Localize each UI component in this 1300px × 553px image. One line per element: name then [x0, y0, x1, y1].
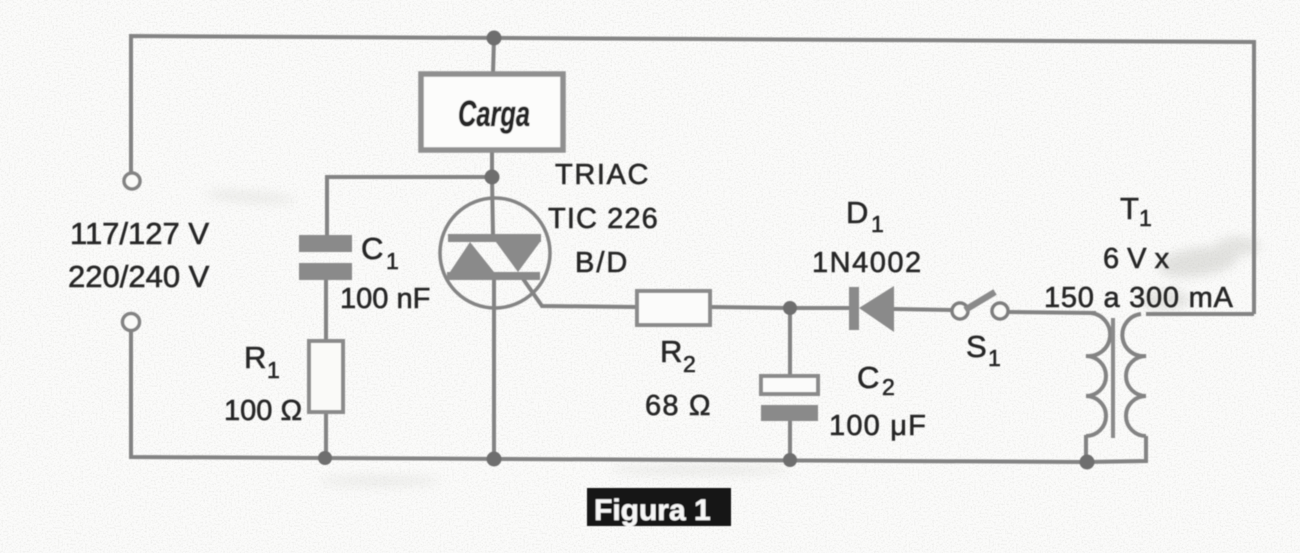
svg-text:Figura 1: Figura 1 — [594, 494, 711, 527]
resistor R2 — [637, 291, 710, 325]
wire node A to C1 branch — [327, 177, 492, 235]
svg-text:1: 1 — [1139, 205, 1152, 231]
svg-text:100 μF: 100 μF — [829, 410, 927, 442]
svg-text:1: 1 — [871, 211, 884, 237]
node top rail junction — [487, 31, 502, 46]
svg-text:2: 2 — [882, 374, 895, 400]
terminal top-left — [124, 173, 140, 189]
node triac bottom junction — [487, 452, 502, 467]
svg-text:S: S — [966, 329, 987, 364]
wire Carga to node A — [490, 150, 494, 177]
transformer T1 core — [1111, 318, 1115, 438]
diode D1 — [849, 286, 894, 332]
svg-text:Carga: Carga — [458, 93, 530, 134]
svg-text:100 Ω: 100 Ω — [224, 395, 302, 427]
label C2 — [857, 360, 895, 400]
wire top rail with side drops — [131, 36, 1254, 314]
wire triac MT1 to bottom rail — [492, 278, 496, 459]
node transformer bottom junction — [1080, 455, 1095, 470]
terminal bottom-left — [123, 314, 140, 331]
label D1 — [846, 195, 884, 237]
resistor R1 — [309, 341, 343, 412]
wire S1 to transformer primary — [1008, 312, 1096, 313]
node C2 bottom junction — [783, 453, 797, 467]
svg-text:1: 1 — [267, 357, 280, 383]
svg-text:68 Ω: 68 Ω — [645, 390, 712, 422]
svg-text:B/D: B/D — [575, 247, 629, 279]
label T1 — [1120, 191, 1152, 231]
label S1 — [966, 329, 1001, 371]
figure caption Figura 1 — [587, 488, 731, 527]
wire node B down to C2 — [788, 308, 792, 376]
load box Carga — [421, 74, 563, 150]
wire D1 to S1 — [894, 309, 952, 310]
svg-text:1N4002: 1N4002 — [812, 247, 923, 279]
svg-text:C: C — [361, 231, 383, 266]
wire node B to D1 anode side — [790, 306, 851, 310]
svg-text:R: R — [244, 340, 266, 375]
label R1 — [244, 340, 280, 383]
wire transformer primary bottom stub — [1084, 435, 1088, 460]
svg-text:T: T — [1120, 191, 1139, 226]
triac U1 TIC226 — [440, 198, 550, 308]
label R2 — [660, 334, 696, 377]
svg-text:2: 2 — [683, 351, 696, 377]
transformer T1 primary winding — [1086, 313, 1110, 436]
svg-text:1: 1 — [988, 345, 1001, 371]
wire triac gate — [519, 273, 637, 307]
wire transformer secondary bottom return — [1087, 436, 1146, 462]
wire C1 to R1 — [324, 280, 328, 341]
wire top node to Carga — [493, 38, 494, 74]
node R1 bottom junction — [318, 451, 332, 465]
switch S1 — [952, 292, 1008, 319]
wire C2 to bottom rail — [788, 421, 792, 460]
transformer T1 secondary winding — [1122, 314, 1146, 436]
svg-text:220/240 V: 220/240 V — [68, 259, 210, 294]
wire node A into triac MT2 — [492, 177, 493, 236]
svg-text:TRIAC: TRIAC — [555, 159, 650, 191]
capacitor C1 — [299, 235, 352, 280]
svg-text:1: 1 — [386, 248, 399, 274]
svg-text:117/127 V: 117/127 V — [70, 216, 209, 251]
capacitor C2 electrolytic — [761, 376, 818, 421]
node A junction — [485, 170, 500, 185]
svg-text:R: R — [660, 334, 682, 369]
svg-text:C: C — [857, 360, 879, 395]
svg-text:D: D — [846, 195, 868, 230]
node B junction — [783, 301, 797, 315]
wire R2 to node B — [710, 307, 790, 308]
wire R1 to bottom rail — [324, 412, 328, 458]
svg-text:150 a 300 mA: 150 a 300 mA — [1044, 282, 1234, 314]
svg-text:6 V x: 6 V x — [1103, 243, 1170, 275]
svg-text:100 nF: 100 nF — [340, 283, 430, 315]
wire bottom rail — [131, 331, 1087, 462]
label C1 — [361, 231, 399, 274]
wire transformer secondary top to right rail — [1146, 312, 1254, 316]
svg-text:TIC 226: TIC 226 — [548, 203, 659, 235]
